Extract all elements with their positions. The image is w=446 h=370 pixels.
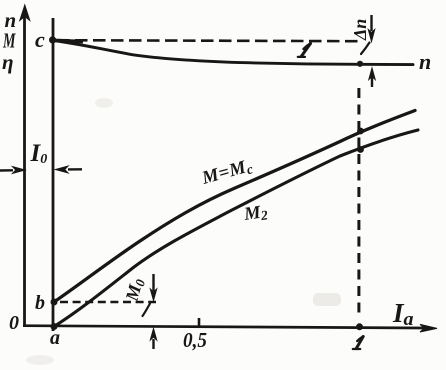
I0 left arrow bbox=[0, 167, 25, 174]
M0 lower arrow bbox=[150, 329, 156, 350]
svg-text:a: a bbox=[50, 327, 60, 349]
node b dot bbox=[51, 299, 58, 306]
n curve dot at x=1 bbox=[357, 61, 363, 67]
dot on M=Mc at x=1 bbox=[357, 128, 364, 135]
node c dot bbox=[49, 36, 56, 43]
svg-text:c: c bbox=[35, 27, 45, 52]
svg-text:n: n bbox=[419, 49, 431, 74]
M2 label bbox=[242, 202, 269, 226]
wire: thick stroke from c bbox=[50, 40, 83, 41]
vertical line at I0 bbox=[52, 18, 55, 331]
scan smudge bbox=[313, 293, 341, 306]
svg-text:b: b bbox=[35, 292, 45, 314]
dot on M2 at x=1 bbox=[357, 146, 364, 153]
tick label 1 on x-axis bbox=[353, 337, 363, 350]
svg-text:M: M bbox=[2, 29, 16, 53]
M=Mc label bbox=[199, 156, 255, 190]
n curve bbox=[53, 41, 413, 65]
delta-n leader tick bbox=[361, 43, 370, 55]
svg-text:0,5: 0,5 bbox=[183, 328, 207, 352]
scan smudge bbox=[26, 355, 54, 365]
dashed line from b bbox=[60, 301, 156, 304]
dot on axis at x=1 bbox=[356, 323, 363, 330]
M0 leader tick bbox=[143, 304, 151, 317]
M2 curve bbox=[54, 130, 418, 327]
delta-n lower arrow bbox=[369, 68, 375, 87]
M0 label (rotated) bbox=[121, 276, 148, 305]
svg-text:Δn: Δn bbox=[350, 19, 370, 41]
label 1 near dashed line bbox=[298, 44, 311, 57]
svg-text:η: η bbox=[2, 50, 14, 74]
node a dot bbox=[51, 323, 58, 330]
vertical dashed line at x=1 bbox=[357, 88, 360, 315]
M0 upper arrow bbox=[150, 274, 156, 301]
svg-text:0: 0 bbox=[9, 312, 19, 334]
delta-n upper arrow bbox=[368, 15, 374, 42]
tick at 0.5 bbox=[198, 318, 201, 327]
x-axis bbox=[23, 324, 437, 332]
delta-n label (rotated) bbox=[350, 19, 370, 41]
I0 right arrow bbox=[56, 166, 83, 173]
dashed line from c to x=1 bbox=[57, 40, 362, 41]
scan smudge bbox=[95, 98, 113, 108]
y-axis bbox=[20, 5, 30, 326]
M=Mc curve bbox=[54, 111, 415, 303]
